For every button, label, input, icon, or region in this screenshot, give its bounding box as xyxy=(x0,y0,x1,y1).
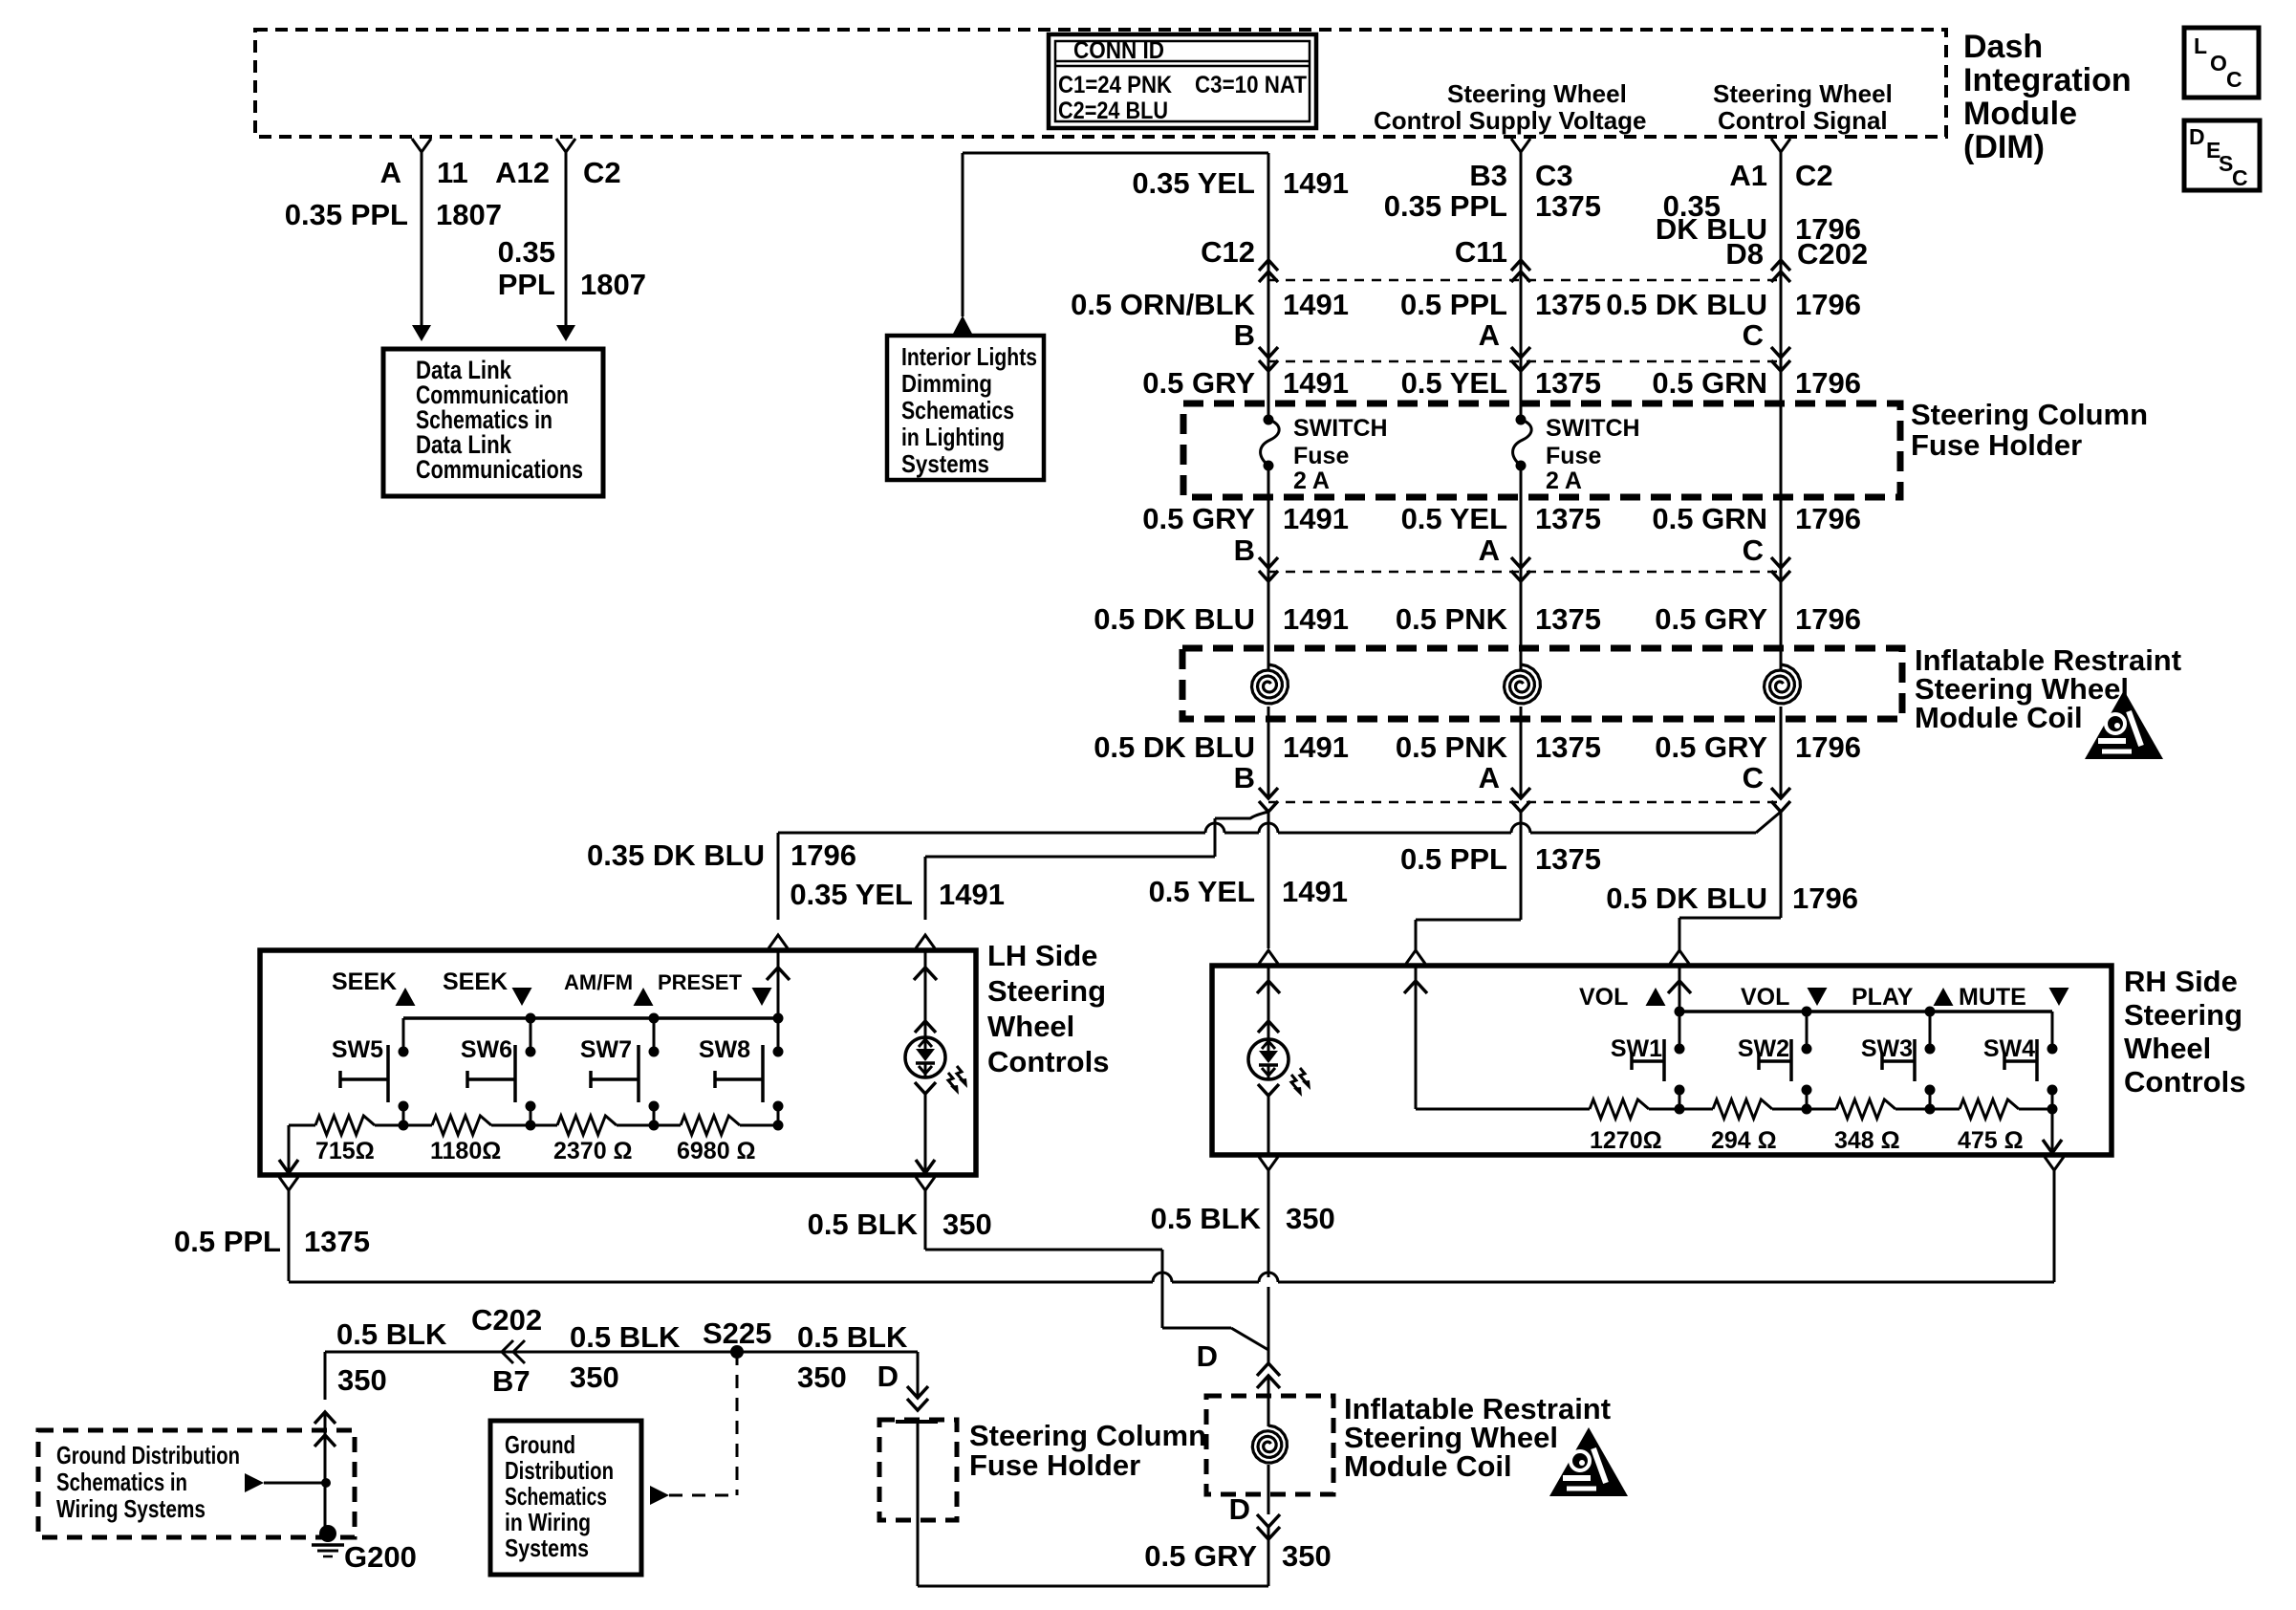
splice S225 xyxy=(730,1345,744,1359)
svg-text:Module Coil: Module Coil xyxy=(1915,701,2083,734)
wire branch to LH LED (0.35 YEL) xyxy=(925,856,1215,859)
svg-text:SEEK: SEEK xyxy=(443,968,508,995)
svg-text:1375: 1375 xyxy=(1535,366,1601,400)
svg-text:SW6: SW6 xyxy=(461,1036,512,1063)
arrowheads at connector plane 2 xyxy=(1259,347,1278,358)
svg-text:Control Signal: Control Signal xyxy=(1718,106,1888,135)
Interior Lights Dimming reference box xyxy=(887,336,1044,480)
RH Side Steering Wheel Controls box xyxy=(1212,966,2112,1155)
svg-text:1375: 1375 xyxy=(1535,288,1601,321)
svg-text:350: 350 xyxy=(1286,1202,1335,1235)
svg-text:Module Coil: Module Coil xyxy=(1344,1449,1512,1483)
svg-text:1796: 1796 xyxy=(1792,881,1858,915)
svg-text:0.5 PNK: 0.5 PNK xyxy=(1396,602,1508,636)
wire into LH switch bus xyxy=(769,935,788,948)
svg-text:1796: 1796 xyxy=(1795,502,1861,535)
RH resistor chain xyxy=(1679,1090,1681,1109)
resistor 294 ohm xyxy=(1679,1108,1713,1111)
svg-text:Wheel: Wheel xyxy=(2124,1032,2211,1065)
svg-text:D: D xyxy=(1197,1339,1218,1373)
svg-text:VOL: VOL xyxy=(1741,984,1789,1011)
svg-text:0.5 BLK: 0.5 BLK xyxy=(336,1317,447,1351)
svg-text:Ground: Ground xyxy=(505,1430,575,1459)
svg-text:C202: C202 xyxy=(471,1303,542,1337)
wire through fuse 2 xyxy=(1520,403,1523,420)
svg-text:0.5 GRN: 0.5 GRN xyxy=(1652,366,1767,400)
svg-text:Integration: Integration xyxy=(1963,62,2132,98)
connector symbols at plane 4 xyxy=(1259,788,1278,798)
RH return wire arrow xyxy=(2051,1109,2054,1140)
connector C202/B7 double chevron xyxy=(513,1340,525,1363)
LH black wire route xyxy=(925,1249,1162,1251)
wire 0.35 DK BLU 1796 horizontal to LH xyxy=(1530,832,1756,835)
connector D chevrons below coil xyxy=(1267,1494,1270,1514)
svg-text:in Lighting: in Lighting xyxy=(901,423,1005,451)
wire jog from B to LH LED branch xyxy=(1215,812,1268,818)
svg-text:715Ω: 715Ω xyxy=(315,1138,375,1164)
LH LED xyxy=(915,1021,936,1033)
svg-text:SW1: SW1 xyxy=(1611,1035,1662,1062)
svg-text:Wheel: Wheel xyxy=(987,1010,1074,1043)
svg-text:Control Supply Voltage: Control Supply Voltage xyxy=(1374,106,1647,135)
svg-text:0.5 GRY: 0.5 GRY xyxy=(1144,1539,1257,1573)
svg-text:C: C xyxy=(2226,67,2242,92)
svg-text:0.5 PPL: 0.5 PPL xyxy=(1400,842,1507,876)
wire pin A12/C2 from DIM xyxy=(556,139,575,152)
svg-text:B: B xyxy=(1234,533,1255,567)
svg-text:294 Ω: 294 Ω xyxy=(1711,1127,1777,1154)
svg-text:C3=10 NAT: C3=10 NAT xyxy=(1195,72,1307,98)
svg-text:in Wiring: in Wiring xyxy=(505,1508,591,1536)
coil spiral 4 xyxy=(1267,1396,1270,1426)
svg-text:Schematics in: Schematics in xyxy=(56,1468,187,1496)
wire into RH switch bus xyxy=(1670,950,1689,964)
svg-text:SW8: SW8 xyxy=(699,1036,750,1063)
resistor 715 ohm xyxy=(289,1124,315,1127)
svg-text:1491: 1491 xyxy=(1283,366,1349,400)
svg-text:1796: 1796 xyxy=(1795,602,1861,636)
svg-text:Controls: Controls xyxy=(987,1045,1109,1078)
wire C11 vertical from DIM xyxy=(1511,139,1530,152)
SWITCH fuse 2A (circuit 1491) xyxy=(1264,415,1274,425)
svg-text:0.5 BLK: 0.5 BLK xyxy=(570,1320,681,1354)
svg-text:A: A xyxy=(380,156,401,189)
svg-text:D: D xyxy=(1229,1492,1250,1526)
svg-text:1491: 1491 xyxy=(1283,730,1349,764)
svg-text:1796: 1796 xyxy=(791,838,856,872)
svg-text:348 Ω: 348 Ω xyxy=(1834,1127,1900,1154)
svg-text:1375: 1375 xyxy=(1535,502,1601,535)
svg-text:Schematics: Schematics xyxy=(901,396,1014,424)
svg-text:A: A xyxy=(1479,533,1500,567)
LH return wire arrow xyxy=(288,1125,291,1159)
wire C down to RH branch xyxy=(1780,812,1783,918)
Dash Integration Module (DIM) dashed box xyxy=(255,30,1946,137)
svg-text:Communications: Communications xyxy=(416,455,583,484)
svg-text:L: L xyxy=(2194,33,2207,58)
svg-text:1270Ω: 1270Ω xyxy=(1590,1127,1662,1154)
LH 0.5 PPL 1375 exit xyxy=(279,1177,298,1190)
svg-text:C: C xyxy=(2232,165,2248,190)
svg-text:C2: C2 xyxy=(583,156,621,189)
svg-text:Fuse: Fuse xyxy=(1293,443,1349,469)
svg-text:0.5 DK BLU: 0.5 DK BLU xyxy=(1094,730,1255,764)
LH resistor chain xyxy=(402,1106,405,1125)
connector C202 pass-through symbols (chevrons up) xyxy=(1259,260,1278,271)
connector plane dashed line 3 xyxy=(1268,571,1781,574)
wire to Interior Lights Dimming xyxy=(963,152,1268,155)
svg-text:VOL: VOL xyxy=(1579,984,1628,1011)
svg-text:SW3: SW3 xyxy=(1861,1035,1913,1062)
svg-text:0.5 GRN: 0.5 GRN xyxy=(1652,502,1767,535)
coil spiral 1 xyxy=(1267,648,1270,664)
wire down to LH switch bus xyxy=(777,833,780,920)
resistor 1270 ohm xyxy=(1590,1099,1649,1119)
svg-text:Schematics: Schematics xyxy=(505,1482,607,1511)
svg-text:C: C xyxy=(1743,318,1764,352)
wire into RH LED xyxy=(1259,950,1278,964)
resistor 348 ohm xyxy=(1807,1108,1836,1111)
svg-text:RH Side: RH Side xyxy=(2124,965,2238,998)
svg-text:1375: 1375 xyxy=(304,1225,370,1258)
svg-text:A: A xyxy=(1479,761,1500,794)
svg-text:CONN ID: CONN ID xyxy=(1073,37,1164,64)
Ground Distribution Schematics solid box xyxy=(490,1421,641,1575)
svg-text:D: D xyxy=(2189,124,2205,149)
svg-text:A: A xyxy=(1479,318,1500,352)
branch arrow in ground box xyxy=(245,1473,264,1492)
wire into RH resistor chain xyxy=(1406,950,1425,964)
wire A down to RH branch xyxy=(1520,812,1523,920)
wire 3 through fuse holder box xyxy=(1780,403,1783,572)
svg-text:0.5 YEL: 0.5 YEL xyxy=(1149,875,1255,908)
wire B continues to RH LED xyxy=(1267,812,1270,948)
svg-text:Fuse Holder: Fuse Holder xyxy=(969,1448,1140,1482)
airbag warning triangle xyxy=(2085,690,2163,759)
svg-text:0.35 PPL: 0.35 PPL xyxy=(285,198,408,231)
svg-text:D: D xyxy=(877,1360,899,1393)
svg-text:LH Side: LH Side xyxy=(987,939,1097,972)
svg-text:1491: 1491 xyxy=(1283,502,1349,535)
svg-text:S225: S225 xyxy=(703,1316,771,1350)
svg-text:0.35 YEL: 0.35 YEL xyxy=(1132,166,1255,200)
svg-text:A12: A12 xyxy=(495,156,550,189)
S225 dashed branch vertical xyxy=(736,1352,739,1495)
svg-text:0.5 PNK: 0.5 PNK xyxy=(1396,730,1508,764)
ground G200 symbol xyxy=(319,1525,336,1542)
svg-text:A1: A1 xyxy=(1729,159,1767,192)
svg-text:MUTE: MUTE xyxy=(1959,984,2026,1011)
svg-text:1807: 1807 xyxy=(580,268,646,301)
svg-text:SW4: SW4 xyxy=(1983,1035,2035,1062)
svg-text:Steering Column: Steering Column xyxy=(1911,398,2148,431)
svg-text:Dimming: Dimming xyxy=(901,369,992,398)
svg-text:Steering: Steering xyxy=(2124,998,2242,1032)
svg-text:350: 350 xyxy=(797,1360,847,1394)
svg-text:Interior Lights: Interior Lights xyxy=(901,342,1037,371)
wire 1796 diagonal from C xyxy=(1756,812,1781,833)
DESC reference box xyxy=(2184,120,2260,190)
svg-text:B: B xyxy=(1234,318,1255,352)
svg-text:0.5 BLK: 0.5 BLK xyxy=(1151,1202,1262,1235)
connector plane dashed line 4 xyxy=(1268,801,1781,804)
svg-text:C11: C11 xyxy=(1455,235,1507,269)
svg-text:PLAY: PLAY xyxy=(1852,984,1914,1011)
svg-text:1491: 1491 xyxy=(939,878,1005,911)
SWITCH fuse 2A (circuit 1375) xyxy=(1516,415,1527,425)
svg-text:2 A: 2 A xyxy=(1293,468,1330,494)
svg-text:0.5 BLK: 0.5 BLK xyxy=(808,1207,919,1241)
LH Side Steering Wheel Controls box xyxy=(260,950,976,1175)
svg-text:0.5 GRY: 0.5 GRY xyxy=(1142,366,1255,400)
resistor 1180 ohm xyxy=(403,1124,432,1127)
svg-text:0.5 PPL: 0.5 PPL xyxy=(174,1225,281,1258)
coil spiral 2 xyxy=(1520,648,1523,664)
svg-text:D8: D8 xyxy=(1725,237,1764,271)
LH switch top bus xyxy=(403,1016,778,1020)
svg-text:0.35 YEL: 0.35 YEL xyxy=(790,878,913,911)
svg-text:0.5 YEL: 0.5 YEL xyxy=(1401,366,1507,400)
svg-text:1796: 1796 xyxy=(1795,288,1861,321)
svg-text:O: O xyxy=(2210,51,2227,76)
svg-text:Ground Distribution: Ground Distribution xyxy=(56,1441,240,1469)
diagonal joining RH black wire xyxy=(1231,1328,1268,1350)
svg-text:Dash: Dash xyxy=(1963,29,2043,65)
connector plane dashed line 2 xyxy=(1268,360,1781,363)
svg-text:SW5: SW5 xyxy=(332,1036,383,1063)
svg-text:Steering Column: Steering Column xyxy=(969,1419,1206,1452)
svg-text:6980 Ω: 6980 Ω xyxy=(677,1138,756,1164)
svg-text:0.5 DK BLU: 0.5 DK BLU xyxy=(1606,881,1767,915)
svg-text:C3: C3 xyxy=(1535,159,1573,192)
arrow to S225 dashed branch xyxy=(650,1486,669,1505)
RH SW4 0.5 BLK exit down xyxy=(2045,1157,2064,1170)
svg-text:0.5 DK BLU: 0.5 DK BLU xyxy=(1094,602,1255,636)
svg-text:Steering Wheel: Steering Wheel xyxy=(1713,79,1893,108)
svg-text:0.35 DK BLU: 0.35 DK BLU xyxy=(587,838,765,872)
wire C2/D8 vertical from DIM xyxy=(1771,139,1790,152)
Steering Column Fuse Holder dashed box xyxy=(1183,403,1900,497)
arrowhead wire C2 xyxy=(556,325,575,341)
svg-text:Module: Module xyxy=(1963,96,2077,132)
svg-text:Systems: Systems xyxy=(505,1534,589,1562)
wire through fuse 1 xyxy=(1267,403,1270,420)
svg-text:475 Ω: 475 Ω xyxy=(1958,1127,2024,1154)
resistor 2370 ohm xyxy=(531,1124,557,1127)
coil spiral 3 xyxy=(1780,648,1783,664)
svg-text:Steering: Steering xyxy=(987,974,1106,1008)
wire down to G200 xyxy=(324,1352,327,1400)
svg-text:1375: 1375 xyxy=(1535,730,1601,764)
svg-text:1375: 1375 xyxy=(1535,842,1601,876)
fuse holder contact bar xyxy=(896,1420,938,1424)
svg-text:1491: 1491 xyxy=(1282,875,1348,908)
svg-text:0.5 GRY: 0.5 GRY xyxy=(1655,602,1767,636)
svg-text:11: 11 xyxy=(437,156,468,189)
svg-text:Steering Wheel: Steering Wheel xyxy=(1447,79,1627,108)
svg-text:350: 350 xyxy=(1282,1539,1332,1573)
svg-text:(DIM): (DIM) xyxy=(1963,129,2045,165)
airbag warning triangle 2 xyxy=(1549,1427,1628,1496)
bottom ground wire xyxy=(918,1585,1268,1588)
0.5 PPL 1375 long return wire xyxy=(289,1281,1153,1284)
svg-text:C: C xyxy=(1743,761,1764,794)
resistor 6980 ohm xyxy=(654,1124,681,1127)
svg-text:1375: 1375 xyxy=(1535,602,1601,636)
svg-text:Controls: Controls xyxy=(2124,1065,2245,1099)
wire pin A/11 from DIM xyxy=(412,139,431,152)
connector D chevrons above coil xyxy=(1267,1350,1270,1363)
svg-text:350: 350 xyxy=(942,1207,992,1241)
svg-text:0.5 GRY: 0.5 GRY xyxy=(1142,502,1255,535)
wire C12 vertical (0.35 YEL 1491) xyxy=(1267,153,1270,280)
Steering Column Fuse Holder dashed box 2 xyxy=(879,1420,957,1520)
Inflatable Restraint Steering Wheel Module Coil dashed box xyxy=(1182,648,1902,719)
svg-text:B: B xyxy=(1234,761,1255,794)
svg-text:0.5 PPL: 0.5 PPL xyxy=(1400,288,1507,321)
Ground Distribution dashed box xyxy=(38,1430,355,1537)
svg-text:C12: C12 xyxy=(1201,235,1255,269)
svg-text:1491: 1491 xyxy=(1283,602,1349,636)
svg-text:C1=24 PNK: C1=24 PNK xyxy=(1058,72,1172,98)
svg-text:0.5 GRY: 0.5 GRY xyxy=(1655,730,1767,764)
svg-text:SWITCH: SWITCH xyxy=(1293,415,1388,442)
Data Link Communications reference box xyxy=(383,349,603,496)
svg-text:Wiring Systems: Wiring Systems xyxy=(56,1494,206,1523)
RH LED xyxy=(1258,1021,1279,1033)
LH 0.5 BLK 350 exit xyxy=(916,1177,935,1190)
svg-text:C202: C202 xyxy=(1797,237,1868,271)
svg-text:Fuse: Fuse xyxy=(1546,443,1601,469)
svg-text:1180Ω: 1180Ω xyxy=(430,1138,501,1164)
svg-text:0.35: 0.35 xyxy=(498,235,555,269)
svg-text:PPL: PPL xyxy=(498,268,555,301)
RH switch top bus xyxy=(1679,1010,2052,1013)
svg-text:2 A: 2 A xyxy=(1546,468,1582,494)
svg-text:0.35 PPL: 0.35 PPL xyxy=(1384,189,1507,223)
svg-text:0.5 DK BLU: 0.5 DK BLU xyxy=(1606,288,1767,321)
svg-text:1375: 1375 xyxy=(1535,189,1601,223)
wire into LH LED xyxy=(916,935,935,948)
svg-text:2370 Ω: 2370 Ω xyxy=(553,1138,633,1164)
svg-text:SW7: SW7 xyxy=(580,1036,632,1063)
svg-text:350: 350 xyxy=(337,1363,387,1397)
arrow into Interior Lights box xyxy=(953,315,972,334)
svg-text:PRESET: PRESET xyxy=(658,970,743,994)
svg-text:C2: C2 xyxy=(1795,159,1833,192)
arrowheads at connector plane 3 xyxy=(1259,557,1278,568)
svg-text:SW2: SW2 xyxy=(1738,1035,1789,1062)
Inflatable Restraint coil dashed box 2 xyxy=(1206,1396,1333,1494)
arrowhead wire 11 xyxy=(412,325,431,341)
svg-text:350: 350 xyxy=(570,1360,619,1394)
svg-text:C2=24 BLU: C2=24 BLU xyxy=(1058,98,1168,124)
svg-text:1796: 1796 xyxy=(1795,730,1861,764)
svg-text:0.5 ORN/BLK: 0.5 ORN/BLK xyxy=(1071,288,1256,321)
connector plane dashed line 1 xyxy=(1268,279,1781,282)
svg-text:1796: 1796 xyxy=(1795,366,1861,400)
CONN ID box xyxy=(1049,34,1316,128)
svg-text:SWITCH: SWITCH xyxy=(1546,415,1640,442)
svg-text:AM/FM: AM/FM xyxy=(564,970,633,994)
resistor 475 ohm xyxy=(1930,1108,1960,1111)
RH LED 0.5 BLK 350 exit xyxy=(1259,1157,1278,1170)
svg-text:1491: 1491 xyxy=(1283,166,1349,200)
svg-text:Systems: Systems xyxy=(901,449,989,478)
LOC reference box xyxy=(2184,28,2259,98)
svg-text:1491: 1491 xyxy=(1283,288,1349,321)
svg-text:0.5 BLK: 0.5 BLK xyxy=(797,1320,908,1354)
wire through fuse holder 2 xyxy=(907,1386,928,1398)
svg-text:SEEK: SEEK xyxy=(332,968,397,995)
svg-text:G200: G200 xyxy=(344,1540,417,1574)
svg-text:B7: B7 xyxy=(492,1364,531,1398)
svg-text:C: C xyxy=(1743,533,1764,567)
svg-text:B3: B3 xyxy=(1469,159,1507,192)
svg-text:0.5 YEL: 0.5 YEL xyxy=(1401,502,1507,535)
svg-text:Distribution: Distribution xyxy=(505,1456,614,1485)
ground distribution wire 350 xyxy=(325,1351,918,1354)
svg-text:Fuse Holder: Fuse Holder xyxy=(1911,428,2082,462)
svg-text:1807: 1807 xyxy=(436,198,502,231)
